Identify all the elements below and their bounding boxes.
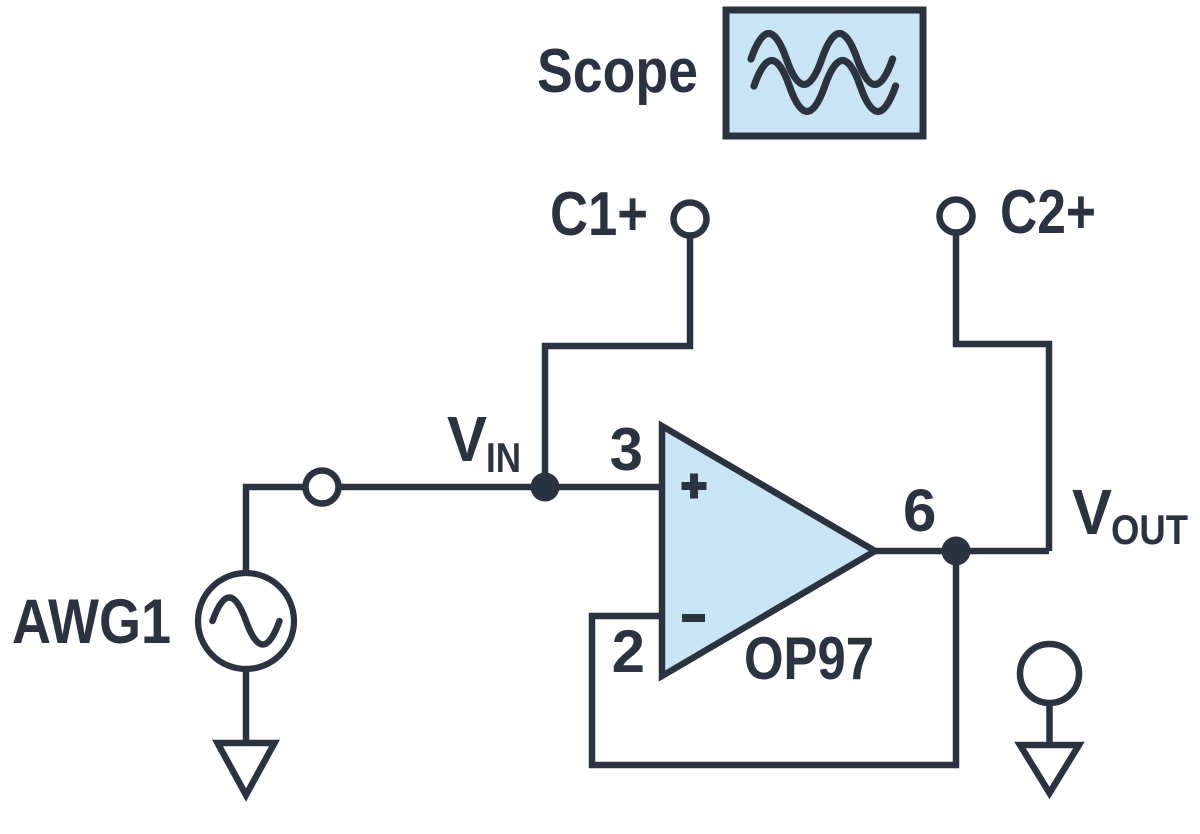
wire AWG bottom stem [243,669,250,742]
svg-text:Scope: Scope [537,37,698,106]
pin number 3 [610,416,643,483]
ground scope [1020,745,1079,793]
wire output pin6 [875,548,1049,555]
wire C2 stem to output node [956,233,1049,551]
node VIN junction dot [531,473,560,502]
ground AWG1 [218,743,275,795]
pin number 2 [612,618,645,685]
svg-text:AWG1: AWG1 [12,587,171,657]
svg-text:2: 2 [612,618,645,685]
terminal C1+ [674,203,707,236]
svg-text:OP97: OP97 [744,625,874,692]
wire terminal to VIN node [339,484,662,491]
label VIN [447,403,521,481]
label AWG1 [12,587,171,657]
op-amp U1 OP97 triangle [662,426,875,676]
svg-text:3: 3 [610,416,643,483]
svg-text:6: 6 [903,477,936,544]
scope ground stem [1046,701,1053,745]
source AWG1 sine [213,598,280,645]
pin number 6 [903,477,936,544]
terminal C2+ [940,200,973,233]
terminal AWG output [306,471,339,504]
svg-text:V: V [1072,476,1112,548]
label Scope [537,37,698,106]
scope box U-scope [726,10,923,136]
label VOUT [1072,476,1188,553]
scope waveform icon upper sine [751,34,893,85]
op-amp minus input marker [682,614,705,622]
svg-text:C2+: C2+ [1000,178,1096,247]
label OP97 [744,625,874,692]
svg-text:V: V [447,403,487,475]
svg-text:IN: IN [486,434,521,481]
scope waveform icon lower sine [754,61,896,112]
svg-text:C1+: C1+ [550,180,648,249]
node VOUT junction dot [942,537,971,566]
label C2+ [1000,178,1096,247]
label C1+ [550,180,648,249]
wire AWG top to terminal [246,487,305,573]
wire feedback pin2 loop [592,551,956,765]
svg-text:OUT: OUT [1111,506,1188,553]
scope ground terminal circle [1020,644,1079,703]
op-amp plus input marker [682,474,707,499]
source AWG1 circle [198,573,294,669]
wire C1 stem to node VIN [545,236,690,487]
